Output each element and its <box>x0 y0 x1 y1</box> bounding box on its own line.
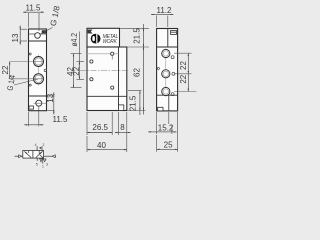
valve symbol top port stubs <box>36 146 38 150</box>
middle view bottom cap line <box>87 95 127 97</box>
right view bottom inner vline <box>168 95 170 111</box>
dim 40 line <box>87 149 127 151</box>
svg-text:11.5: 11.5 <box>26 3 42 12</box>
dim 8 line <box>115 132 119 134</box>
svg-text:21.5: 21.5 <box>129 95 138 111</box>
valve symbol port 1 line <box>42 158 44 164</box>
svg-text:25: 25 <box>164 141 173 150</box>
left view bottom-left block <box>29 106 33 109</box>
middle view inner vertical line <box>118 47 120 111</box>
dim 22 right leader ticks <box>174 52 192 54</box>
valve symbol divider <box>32 151 34 159</box>
middle view mount holes <box>90 60 93 63</box>
right view port 2 <box>162 70 170 78</box>
svg-text:22: 22 <box>179 61 188 70</box>
dim 40 extension lines <box>86 136 88 152</box>
svg-text:62: 62 <box>133 68 142 77</box>
right view port 3 <box>162 87 170 95</box>
svg-text:26.5: 26.5 <box>92 123 108 132</box>
dim 26.5 line <box>87 132 112 134</box>
extension stub under hole <box>111 56 113 60</box>
right view body <box>157 29 178 111</box>
left view port 4 (G1/4) <box>34 74 44 84</box>
valve symbol right cell short diagonal <box>40 155 43 158</box>
dim 22 mid ticks <box>77 61 85 63</box>
valve symbol bottom stub 5 <box>36 158 38 161</box>
left view bottom circle centerline <box>34 102 47 104</box>
logo circle <box>91 34 101 44</box>
right view solenoid divider <box>167 29 169 48</box>
left view port 2 (G1/4) <box>34 57 44 67</box>
dim 22 left leaders to ports <box>10 61 43 63</box>
left view pilot port circle <box>35 33 41 39</box>
svg-text:2: 2 <box>42 143 44 147</box>
valve symbol boxes <box>23 151 44 159</box>
dim 11.5 top line <box>23 11 29 13</box>
left view solenoid interface line <box>29 40 47 42</box>
svg-text:3: 3 <box>46 163 48 167</box>
dim line 21.5/62 <box>143 24 145 28</box>
valve symbol exhaust triangle A <box>40 159 43 162</box>
dim 11.5 bottom line <box>24 124 28 126</box>
dim 11.2 line <box>151 14 157 16</box>
dim 42 ticks <box>71 53 82 55</box>
dim ø4.2 leader <box>78 32 80 62</box>
svg-text:WORK: WORK <box>103 39 118 45</box>
valve symbol left cell arrow <box>24 151 31 157</box>
dim 13 bottom ticks <box>47 95 54 97</box>
dim 22 mid line <box>78 62 80 80</box>
dim 13 top-left line <box>19 26 21 30</box>
valve symbol left pilot line <box>15 155 23 157</box>
right view bottom-left block <box>158 107 163 111</box>
svg-text:22: 22 <box>72 66 81 75</box>
svg-text:15.2: 15.2 <box>158 123 174 132</box>
middle view bottom-right square <box>119 105 124 111</box>
svg-text:8: 8 <box>120 123 125 132</box>
dim 21.5 bottom tick <box>128 90 142 92</box>
ticks 21.5/62 <box>120 27 149 29</box>
right view bottom cap line <box>157 94 178 96</box>
dim 11.5 top extension lines <box>28 13 30 28</box>
dim 25 line <box>157 148 178 150</box>
right view top-right block <box>171 30 177 34</box>
svg-text:11.5: 11.5 <box>53 115 69 124</box>
label G 1/8 leader <box>41 28 53 34</box>
svg-text:ø4.2: ø4.2 <box>70 33 79 47</box>
right view interface line <box>157 46 178 48</box>
svg-text:21.5: 21.5 <box>133 28 142 44</box>
svg-text:22: 22 <box>1 65 10 74</box>
dim 15.2 line <box>148 131 156 133</box>
middle view flag icon <box>88 30 93 34</box>
label G 1/4 leader <box>14 79 38 85</box>
right view port 1 <box>162 49 170 57</box>
svg-text:40: 40 <box>97 141 106 150</box>
svg-text:13: 13 <box>11 33 20 42</box>
middle view faint top line <box>87 53 119 55</box>
valve symbol left pilot triangle <box>19 155 22 158</box>
left view cap seam line <box>29 33 47 35</box>
valve symbol left cell stub <box>28 151 30 153</box>
left view body <box>29 29 47 111</box>
right view tiny left circle <box>157 68 159 70</box>
svg-text:1: 1 <box>42 164 44 168</box>
dim 26.5 extension lines <box>86 112 88 135</box>
middle view solenoid box <box>87 28 120 47</box>
left view top-right dark block <box>42 31 46 34</box>
valve symbol right pilot triangle <box>52 155 55 158</box>
dim 11.5 bottom extension lines <box>28 112 30 126</box>
dim 21.5 bottom line <box>139 91 141 111</box>
right view screws <box>171 56 174 59</box>
dim 11.2 extension lines <box>156 16 158 28</box>
dim 42 line <box>73 54 75 88</box>
right view port centerline <box>165 49 167 97</box>
left view bottom circle <box>36 100 42 106</box>
valve symbol right pilot line <box>44 155 56 157</box>
dim 13 bottom-right line <box>53 92 55 96</box>
left view screw circles <box>29 53 31 55</box>
left view port centerline <box>38 55 40 86</box>
svg-text:22: 22 <box>179 74 188 83</box>
dim 8 extension line <box>118 112 120 135</box>
svg-text:11.2: 11.2 <box>157 6 173 15</box>
dim 22 right line <box>187 53 189 74</box>
valve symbol junction dot <box>40 147 42 149</box>
valve symbol right cell arrow <box>36 151 43 157</box>
valve symbol exhaust triangle B <box>43 159 46 162</box>
middle view centerline <box>80 70 130 72</box>
svg-text:4: 4 <box>35 143 37 147</box>
valve symbol right cell vline stub <box>38 151 40 155</box>
dim 25 extension lines <box>156 135 158 152</box>
dim 15.2 extension lines <box>156 112 158 134</box>
left view bottom cap line <box>29 95 47 97</box>
middle view body <box>87 47 127 111</box>
dim 13 ticks <box>20 28 27 30</box>
svg-text:5: 5 <box>36 163 38 167</box>
dim 22 left line <box>9 62 11 79</box>
